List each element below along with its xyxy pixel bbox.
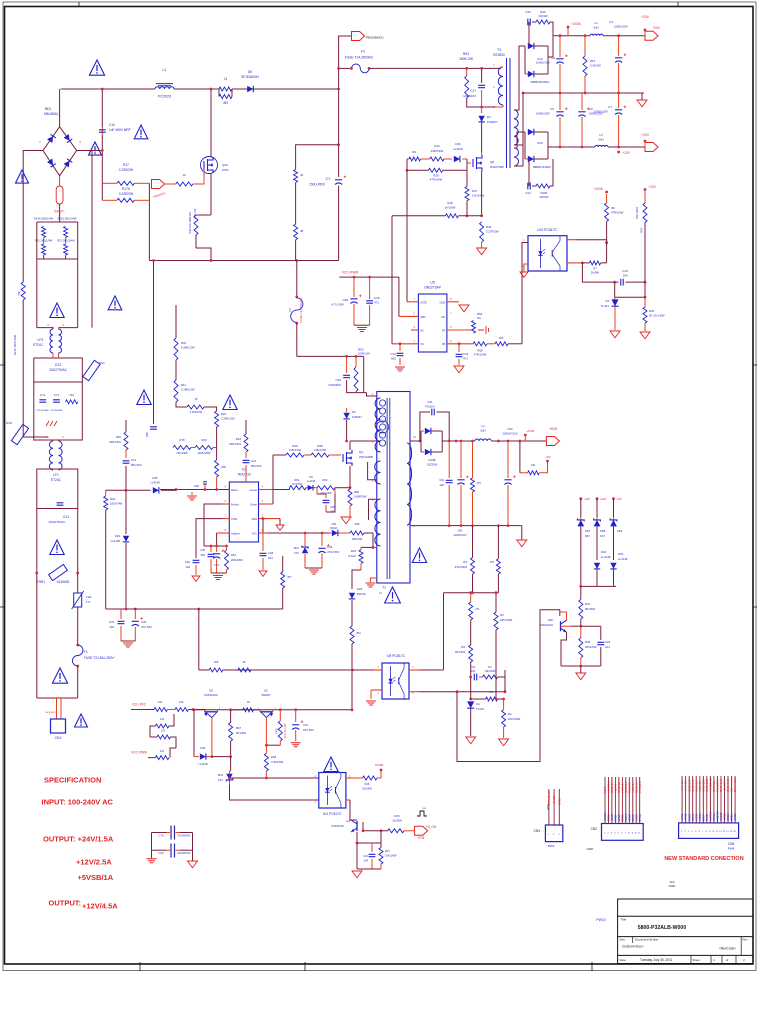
svg-text:5uH: 5uH <box>598 138 603 142</box>
svg-text:SPECIFICATION: SPECIFICATION <box>44 776 101 785</box>
svg-text:R58: R58 <box>317 444 323 448</box>
svg-text:10K/1/4W: 10K/1/4W <box>110 502 123 506</box>
wire vcc to T1 aux <box>372 533 374 547</box>
svg-text:1k1/6W: 1k1/6W <box>392 819 402 823</box>
resistor J71 <box>469 602 473 620</box>
svg-text:LL4148: LL4148 <box>601 555 611 559</box>
svg-text:27V: 27V <box>294 551 299 555</box>
warning triangle mid <box>134 125 148 139</box>
feedback loop wire <box>457 610 560 762</box>
svg-text:U4: U4 <box>476 702 480 706</box>
capacitor C19 <box>621 279 623 286</box>
svg-text:D34: D34 <box>601 550 607 554</box>
svg-text:ON: ON <box>422 808 426 810</box>
svg-text:R19: R19 <box>434 144 440 148</box>
ground C70 <box>147 859 157 863</box>
svg-text:J24: J24 <box>160 749 165 753</box>
svg-text:Z701: Z701 <box>222 168 229 172</box>
svg-text:C28: C28 <box>330 505 335 509</box>
svg-text:0.22R/2W: 0.22R/2W <box>119 168 133 172</box>
resistor J6 <box>294 170 298 183</box>
svg-text:S14K681: S14K681 <box>56 580 69 584</box>
svg-text:C20: C20 <box>194 484 200 488</box>
diode D4 <box>478 116 484 122</box>
svg-text:CS: CS <box>420 342 424 346</box>
net +5V tap <box>519 441 521 473</box>
resistor R21A <box>64 227 68 238</box>
net +5V column <box>612 497 615 500</box>
svg-text:STB11: STB11 <box>639 813 642 821</box>
svg-text:LF3: LF3 <box>38 338 44 342</box>
svg-text:AC(KEEP): AC(KEEP) <box>46 711 57 714</box>
bridge rectifier BD1 <box>43 127 77 176</box>
svg-text:0.85R/2W: 0.85R/2W <box>354 495 367 499</box>
svg-text:OUTPUT: +24V/1.5A: OUTPUT: +24V/1.5A <box>43 835 114 844</box>
wire D15 out <box>547 132 549 159</box>
svg-text:PW10: PW10 <box>596 918 605 922</box>
wire Q20 gate <box>202 169 204 184</box>
wire Q20 drain <box>210 89 212 157</box>
wire U6 branch <box>614 282 616 297</box>
wire bridge right to rail <box>77 150 103 152</box>
svg-text:R216 1/6W 2M2: R216 1/6W 2M2 <box>13 334 17 355</box>
svg-text:104: 104 <box>622 274 627 278</box>
svg-text:ZD2: ZD2 <box>294 546 300 550</box>
arrow DRIVER1 <box>152 180 165 189</box>
svg-text:1N4937: 1N4937 <box>487 120 498 124</box>
resistor JT5a <box>472 441 474 478</box>
connector CN1 <box>51 719 66 733</box>
svg-text:CY2: CY2 <box>54 393 60 397</box>
svg-text:D5: D5 <box>309 475 313 479</box>
capacitor C3 <box>618 36 620 56</box>
svg-text:R02: R02 <box>110 497 116 501</box>
opto U11 PC817C <box>319 773 346 809</box>
svg-text:J4: J4 <box>182 173 186 177</box>
rectifier D10B <box>421 430 424 432</box>
svg-text:BD1: BD1 <box>45 107 52 111</box>
capacitor C17 <box>481 68 483 83</box>
svg-text:R62: R62 <box>322 478 328 482</box>
transistor Q4 <box>356 821 358 831</box>
T1 pin3 wire <box>368 462 377 480</box>
svg-text:U5: U5 <box>430 281 434 285</box>
svg-text:3.9K/1/6W: 3.9K/1/6W <box>314 448 327 452</box>
wire clamp node <box>467 98 495 107</box>
svg-text:OUTPUT:: OUTPUT: <box>49 899 82 908</box>
svg-text:J1: J1 <box>224 77 228 81</box>
wire rails to TNR1 <box>36 509 38 699</box>
svg-text:VCC-PWM: VCC-PWM <box>131 751 147 755</box>
svg-text:R9: R9 <box>188 212 192 216</box>
wire +12V rail right <box>644 188 647 191</box>
svg-text:+12V5: +12V5 <box>695 813 698 821</box>
wire bottom HV return y260.5 <box>149 260 338 262</box>
svg-text:10K/1/6W: 10K/1/6W <box>176 451 188 455</box>
svg-text:OB2273AP: OB2273AP <box>424 286 442 290</box>
net +12V label <box>617 151 620 154</box>
svg-text:J75: J75 <box>489 560 494 564</box>
wire HV2 row <box>297 355 364 357</box>
U10 pin2 right wire <box>567 262 582 264</box>
svg-text:FUSE T1A 250VAC: FUSE T1A 250VAC <box>299 296 303 323</box>
wire +5VB rail2 <box>491 440 546 442</box>
svg-text:104: 104 <box>605 645 610 649</box>
diode D5 isense <box>308 485 313 491</box>
svg-text:C48: C48 <box>342 298 348 302</box>
svg-text:1K/6W: 1K/6W <box>591 271 600 275</box>
wire q40 gnd rail <box>561 665 601 667</box>
capacitor CX1 <box>57 503 64 505</box>
wire x153 stub <box>153 261 155 425</box>
wire rails to LF3 <box>36 259 38 328</box>
inductor L2 <box>590 34 603 36</box>
svg-text:GATE: GATE <box>420 300 427 304</box>
svg-text:C3: C3 <box>609 20 613 24</box>
svg-text:471/1KV: 471/1KV <box>425 405 435 409</box>
svg-text:-24V: -24V <box>584 497 590 501</box>
resistor R12 <box>43 238 45 245</box>
capacitor C6 <box>581 93 583 110</box>
svg-text:224: 224 <box>330 510 335 514</box>
wire gnd mid rail <box>523 92 644 94</box>
svg-text:223: 223 <box>471 669 476 673</box>
svg-text:R40: R40 <box>116 435 122 439</box>
svg-text:T1: T1 <box>382 586 386 590</box>
svg-text:2SK3A08B: 2SK3A08B <box>359 455 373 459</box>
svg-text:TL431: TL431 <box>600 304 609 308</box>
svg-text:PC2020: PC2020 <box>158 95 171 99</box>
svg-text:R57: R57 <box>640 227 644 233</box>
resistor J16 <box>66 400 78 404</box>
capacitor C49 <box>321 533 323 546</box>
transistor Q40 <box>560 621 562 631</box>
svg-text:FSON11: FSON11 <box>717 811 720 821</box>
snubber C61 <box>420 412 430 441</box>
svg-text:GND: GND <box>440 300 446 304</box>
svg-text:L1: L1 <box>163 68 167 72</box>
svg-text:L3: L3 <box>599 133 603 137</box>
svg-text:FS_ON: FS_ON <box>426 825 437 829</box>
svg-text:Q2: Q2 <box>264 689 268 693</box>
svg-text:VCC-PC1.6W: VCC-PC1.6W <box>284 723 287 738</box>
resistor R68 <box>264 753 268 771</box>
svg-text:Q3: Q3 <box>209 689 213 693</box>
wire +5VB rail <box>442 440 475 442</box>
svg-text:1000U/25V: 1000U/25V <box>594 110 608 114</box>
svg-text:GND14: GND14 <box>727 812 730 821</box>
U9 pin2 wire <box>409 691 420 693</box>
diode D15a <box>528 129 534 135</box>
wire caps join gnd <box>121 640 135 642</box>
connector CN2 <box>602 824 644 841</box>
svg-text:KSP2222A: KSP2222A <box>539 623 553 627</box>
svg-text:J60: J60 <box>531 463 536 467</box>
svg-text:<RevCode>: <RevCode> <box>719 947 736 951</box>
row J61 R19 D30 <box>407 158 409 160</box>
U5 pin1 stub <box>407 301 418 303</box>
svg-text:R10A 2M2/1/4W: R10A 2M2/1/4W <box>34 217 53 221</box>
resistor R49 <box>480 222 484 242</box>
wire left rail down <box>22 300 24 437</box>
svg-text:C46: C46 <box>374 296 380 300</box>
svg-text:U9 PC817C: U9 PC817C <box>387 654 406 658</box>
svg-text:Size: Size <box>620 938 626 942</box>
svg-text:5VSB: 5VSB <box>375 763 383 767</box>
svg-text:JT5: JT5 <box>477 481 482 485</box>
svg-text:5800-P32ALB-W000: 5800-P32ALB-W000 <box>638 925 687 931</box>
svg-text:2K1/6W: 2K1/6W <box>236 731 246 735</box>
svg-text:C8: C8 <box>471 665 475 669</box>
svg-text:+24V2: +24V2 <box>685 813 688 821</box>
svg-text:U11 PC817C: U11 PC817C <box>323 812 342 816</box>
svg-text:J5: J5 <box>195 397 198 401</box>
svg-text:R49: R49 <box>486 225 492 229</box>
svg-text:PW4: PW4 <box>728 847 735 851</box>
svg-text:+5VSB/1A: +5VSB/1A <box>78 873 114 882</box>
svg-text:ET24C: ET24C <box>51 478 62 482</box>
wire snubber join <box>347 380 367 393</box>
svg-text:C5: C5 <box>550 107 554 111</box>
mosfet Q20 <box>204 157 213 173</box>
Q40 collector <box>560 612 567 620</box>
arrow FS_ON <box>415 826 428 835</box>
ground near C20 <box>187 496 197 500</box>
svg-text:J12: J12 <box>160 717 165 721</box>
row J55 J6b <box>199 669 209 671</box>
svg-text:R61: R61 <box>294 478 300 482</box>
svg-text:+24V: +24V <box>641 15 650 19</box>
svg-text:R22: R22 <box>221 412 227 416</box>
svg-text:3.3K/1/6W: 3.3K/1/6W <box>289 448 302 452</box>
diode D3 snubber <box>346 408 348 412</box>
zener ZD2 <box>304 533 306 546</box>
svg-text:KBU806J_: KBU806J_ <box>44 112 60 116</box>
svg-text:Q40: Q40 <box>548 618 554 622</box>
svg-text:MBRD10100C: MBRD10100C <box>533 165 551 169</box>
svg-text:R68: R68 <box>271 755 277 759</box>
svg-text:J42: J42 <box>158 700 163 704</box>
capacitor C26b <box>193 560 200 562</box>
transistor Q3 pass <box>205 711 218 713</box>
svg-text:1K/1/6W: 1K/1/6W <box>292 482 302 486</box>
resistor J58 <box>216 448 218 461</box>
ground C94 <box>188 861 198 868</box>
box CY caps <box>34 382 83 440</box>
snubber C26 R26 <box>528 22 530 46</box>
svg-text:J45: J45 <box>179 700 184 704</box>
Q40 base wire <box>561 625 572 627</box>
wire D4 to Q8 <box>481 123 483 153</box>
capacitor C8 <box>469 676 472 679</box>
resistor D4r <box>483 675 498 679</box>
U5 pin6 RT <box>447 329 474 331</box>
U11 pin1 wire <box>346 777 354 779</box>
svg-text:47R/1/6W: 47R/1/6W <box>474 353 487 357</box>
diode D33 <box>610 563 616 569</box>
svg-text:681/1KV: 681/1KV <box>251 464 262 468</box>
svg-text:LL4148: LL4148 <box>150 481 160 485</box>
svg-text:CN6: CN6 <box>728 842 735 846</box>
resistor R9c <box>495 593 497 612</box>
resistor J5 <box>187 405 204 409</box>
resistor J54 <box>350 626 354 644</box>
svg-text:20K1/6W: 20K1/6W <box>585 645 597 649</box>
wire rail corner up x282 <box>282 588 284 609</box>
svg-text:LL4148: LL4148 <box>198 762 208 766</box>
svg-text:+12VA: +12VA <box>593 187 603 191</box>
resistor J42 <box>154 708 167 712</box>
svg-text:22K/2W: 22K/2W <box>539 195 549 199</box>
svg-text:CX1: CX1 <box>63 515 69 519</box>
svg-text:CN2: CN2 <box>591 827 598 831</box>
svg-text:33K 1/6W: 33K 1/6W <box>635 207 639 220</box>
wire vcc row to right <box>193 709 352 711</box>
snubber C24 R26K <box>528 159 530 186</box>
svg-text:C4: C4 <box>551 56 555 60</box>
svg-text:R12 2M2/1/4W: R12 2M2/1/4W <box>35 239 53 243</box>
svg-text:TL431: TL431 <box>476 707 484 711</box>
svg-text:GND: GND <box>669 884 677 888</box>
wire c21 r27 gnd <box>356 843 358 869</box>
svg-text:LF1: LF1 <box>53 473 59 477</box>
capacitor C21 <box>371 843 373 852</box>
svg-text:RT: RT <box>442 329 446 333</box>
wire U3 pin5 row <box>160 489 229 491</box>
svg-text:FB: FB <box>442 342 446 346</box>
svg-text:R11: R11 <box>181 383 186 387</box>
arrow +5VB out <box>546 437 559 446</box>
net +5VB stub <box>524 434 527 437</box>
box CX1 <box>37 469 78 509</box>
svg-text:C45: C45 <box>141 620 147 624</box>
svg-text:222/400VAC: 222/400VAC <box>177 852 191 855</box>
svg-text:+24VA: +24VA <box>571 22 581 26</box>
arrow +12V out <box>645 143 658 152</box>
svg-text:+5V: +5V <box>616 497 621 501</box>
svg-text:470U 50V: 470U 50V <box>327 550 340 554</box>
wire J6 branch <box>296 145 339 170</box>
fuse F2 <box>339 67 352 69</box>
svg-text:J9: J9 <box>247 700 250 704</box>
T1 pin12 wire <box>410 440 420 442</box>
resistor R51 <box>465 76 469 98</box>
svg-text:22K/2W: 22K/2W <box>538 14 548 18</box>
svg-text:J8: J8 <box>300 229 304 233</box>
wire Q20 source to rail <box>196 214 211 216</box>
capacitor C1 <box>335 179 342 181</box>
svg-text:R4: R4 <box>488 665 492 669</box>
svg-text:J6: J6 <box>300 173 304 177</box>
svg-text:2K 1% 1/6W: 2K 1% 1/6W <box>649 314 665 318</box>
U9 pin1 wire <box>409 669 420 671</box>
svg-text:30V: 30V <box>585 534 590 538</box>
svg-text:104: 104 <box>268 556 273 560</box>
mosfet Q8 <box>473 155 482 171</box>
svg-text:CX2: CX2 <box>55 363 62 367</box>
svg-text:C63: C63 <box>507 427 513 431</box>
shunt U4 TL431 <box>467 701 474 708</box>
wire CN1 bus <box>37 697 78 699</box>
svg-text:1uF 450V MPP: 1uF 450V MPP <box>109 128 131 132</box>
ground Q40 <box>576 673 586 680</box>
svg-text:F2: F2 <box>361 50 365 54</box>
svg-text:VDD: VDD <box>420 315 426 319</box>
spark gap DS1 <box>83 360 100 380</box>
varistor TNR1 <box>49 564 68 580</box>
svg-text:15V: 15V <box>218 778 223 782</box>
svg-text:ZD3: ZD3 <box>218 773 224 777</box>
svg-text:47U 50V: 47U 50V <box>141 625 152 629</box>
svg-text:D33: D33 <box>618 552 624 556</box>
svg-text:F1: F1 <box>84 650 88 654</box>
wire sec low tap <box>514 132 525 148</box>
svg-text:+12V: +12V <box>648 185 656 189</box>
svg-text:LL4148: LL4148 <box>453 147 463 151</box>
svg-text:DS2: DS2 <box>6 421 12 425</box>
svg-text:STAND-BY: STAND-BY <box>547 790 551 805</box>
svg-text:9R1/6W: 9R1/6W <box>585 607 595 611</box>
svg-text:GND: GND <box>546 804 550 810</box>
U3 pin1 vcc row <box>259 532 269 534</box>
wire right rail down <box>148 200 150 260</box>
resistor R60 sense <box>349 488 351 489</box>
resistor R25 <box>388 829 405 833</box>
resistor R17A <box>101 183 103 200</box>
svg-text:15V: 15V <box>600 534 605 538</box>
transformer T3 <box>507 58 511 168</box>
resistor J57 <box>282 556 284 572</box>
svg-text:VCC-PFC: VCC-PFC <box>132 703 147 707</box>
svg-text:C64: C64 <box>458 529 463 533</box>
caps C62 bank <box>448 441 450 478</box>
svg-text:+5VB: +5VB <box>549 427 557 431</box>
svg-text:0.2M/1/2W: 0.2M/1/2W <box>181 346 195 350</box>
svg-text:100R.2W: 100R.2W <box>358 352 370 356</box>
wire FB up to U10 <box>522 243 528 344</box>
svg-text:Protect: Protect <box>231 504 239 507</box>
U3 pin4 row <box>259 489 274 491</box>
svg-text:D10B: D10B <box>429 458 436 462</box>
capacitor C79 <box>120 609 122 619</box>
svg-text:Q8: Q8 <box>490 160 494 164</box>
svg-text:INPUT: 100-240V AC: INPUT: 100-240V AC <box>42 798 114 807</box>
ground sec <box>521 526 523 540</box>
svg-text:1.0: 1.0 <box>86 600 91 604</box>
warning triangle near CN1 <box>75 714 88 727</box>
diode D31b <box>193 710 195 757</box>
ground earth in CY box <box>46 421 57 426</box>
svg-text:D4: D4 <box>487 115 491 119</box>
diode D15b <box>525 158 528 160</box>
svg-text:CN3: CN3 <box>534 829 541 833</box>
resistor R23 <box>360 547 362 549</box>
ground mid rail <box>641 93 643 100</box>
svg-text:NC: NC <box>477 316 481 320</box>
wire +24V rail <box>553 35 590 37</box>
svg-text:C19: C19 <box>622 269 628 273</box>
svg-text:KSP2222A: KSP2222A <box>331 824 344 828</box>
resistor R15 <box>584 36 586 56</box>
svg-text:R36: R36 <box>585 640 591 644</box>
svg-text:33R/1/6W: 33R/1/6W <box>431 149 444 153</box>
svg-text:+5VSB-2: +5VSB-2 <box>638 781 642 793</box>
warning triangle top-left <box>89 60 104 75</box>
wire bridge left down <box>23 151 43 283</box>
svg-text:GND: GND <box>587 847 595 851</box>
svg-text:KSP2222A: KSP2222A <box>204 693 218 697</box>
svg-text:C31: C31 <box>214 563 219 567</box>
